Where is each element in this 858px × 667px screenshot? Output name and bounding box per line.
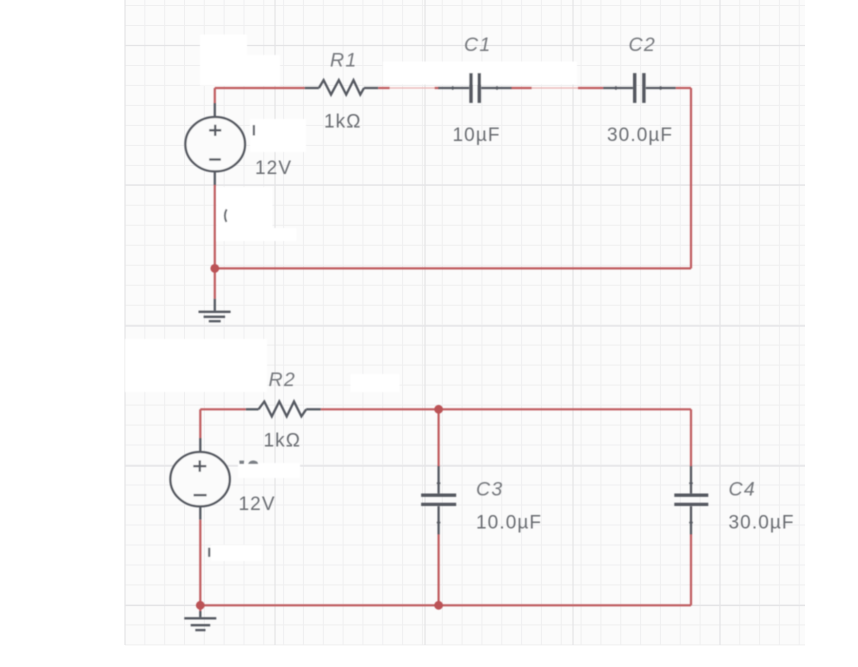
svg-text:R1: R1	[330, 50, 358, 72]
erased patch I (below ground 1)	[125, 339, 267, 392]
svg-text:10µF: 10µF	[453, 125, 501, 146]
junction node (bottom circuit, top mid)	[434, 405, 443, 414]
junction node (bottom circuit, bottom left)	[196, 601, 205, 610]
svg-text:30.0µF: 30.0µF	[729, 512, 795, 533]
wire: right column (top circuit)	[690, 88, 692, 268]
leftover glyph fragments V2 tips	[239, 460, 258, 464]
wire right of C1	[511, 87, 532, 89]
svg-text:12V: 12V	[239, 494, 276, 515]
svg-text:1kΩ: 1kΩ	[324, 111, 362, 132]
junction node (top circuit, bottom-left)	[210, 264, 219, 273]
capacitor C2	[603, 73, 676, 103]
capacitor C4	[674, 466, 708, 535]
resistor R1	[305, 80, 379, 95]
ground (bottom circuit)	[184, 611, 216, 630]
wire stub left of C1	[435, 87, 440, 89]
erased patch B (over V1 label)	[250, 119, 306, 152]
wire: C4 down to bottom-right corner	[690, 535, 692, 606]
wire: top-left corner to R1	[215, 87, 305, 89]
wire: right column down to C4 (bottom circuit)	[690, 409, 692, 466]
erased patch H (below V2)	[211, 545, 262, 561]
ground (top circuit)	[199, 299, 231, 322]
erased patch F (right of R2)	[351, 374, 400, 392]
wire: bottom return (bottom circuit)	[200, 604, 691, 606]
wire: V2 bottom to bottom wire	[199, 520, 201, 606]
wire: bottom return (top circuit)	[215, 267, 691, 269]
voltage source V1	[185, 103, 245, 185]
faint erased wire C1-C2	[532, 87, 578, 89]
erased patch C (below V1 label)	[217, 187, 273, 229]
svg-text:C2: C2	[629, 34, 657, 56]
svg-text:R2: R2	[269, 369, 297, 391]
grid minor lines	[125, 0, 799, 645]
erased patch D (band R1 to C2)	[383, 62, 577, 85]
leftover glyph fragment ( below V1	[225, 209, 227, 222]
grid major lines	[125, 0, 720, 645]
svg-text:1kΩ: 1kΩ	[264, 430, 302, 451]
wire: C3 branch top	[438, 409, 440, 466]
svg-text:C1: C1	[464, 34, 492, 56]
svg-text:12V: 12V	[255, 158, 292, 179]
svg-text:C4: C4	[729, 478, 757, 500]
leftover tick below V2	[208, 548, 210, 557]
svg-text:10.0µF: 10.0µF	[476, 512, 542, 533]
leftover glyph fragment | near V1	[253, 125, 255, 136]
wire: ground 2 stub	[199, 605, 201, 611]
erased patch G (over V2 label)	[238, 463, 300, 478]
wire: V1 top lead up to top-left corner	[214, 88, 216, 103]
capacitor C3	[421, 466, 456, 535]
wire left of C2	[578, 87, 603, 89]
wire stub right of R1	[378, 87, 390, 89]
wire: R2 to junction and on to top-right corner	[321, 408, 691, 410]
wire: V2 top lead up to corner (bottom circuit)	[199, 409, 201, 438]
wire: C3 branch bottom	[438, 535, 440, 606]
wire: corner to R2	[200, 408, 246, 410]
svg-text:30.0µF: 30.0µF	[607, 125, 673, 146]
wire: C2 to top-right corner	[676, 87, 691, 89]
erased patch A (above R1 wire)	[200, 35, 247, 63]
wire: V1 bottom to junction	[214, 185, 216, 299]
voltage source V2	[170, 438, 229, 520]
resistor R2	[246, 402, 321, 417]
capacitor C1	[438, 73, 511, 103]
faint erased wire R1-C1	[390, 87, 435, 89]
junction node (bottom circuit, bottom mid)	[434, 601, 443, 610]
svg-text:C3: C3	[476, 478, 504, 500]
